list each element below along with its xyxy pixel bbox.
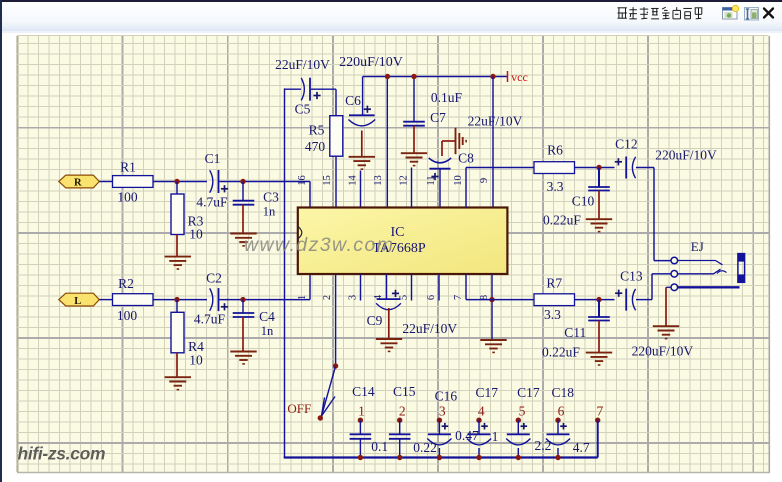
svg-text:100: 100 xyxy=(117,308,138,323)
svg-text:12: 12 xyxy=(399,175,410,186)
svg-text:1n: 1n xyxy=(263,205,276,219)
svg-text:470: 470 xyxy=(305,139,326,154)
svg-text:3: 3 xyxy=(348,295,359,300)
svg-text:R7: R7 xyxy=(546,276,562,291)
svg-text:C18: C18 xyxy=(551,385,574,400)
svg-text:C4: C4 xyxy=(259,309,275,324)
svg-text:3.3: 3.3 xyxy=(547,179,564,194)
svg-text:L: L xyxy=(74,296,81,307)
svg-text:9: 9 xyxy=(479,178,490,183)
svg-text:4.7uF: 4.7uF xyxy=(194,312,226,327)
svg-text:0.1uF: 0.1uF xyxy=(431,90,463,105)
svg-text:22uF/10V: 22uF/10V xyxy=(468,114,523,129)
svg-text:C8: C8 xyxy=(458,151,474,166)
svg-text:C3: C3 xyxy=(263,190,279,205)
svg-text:C15: C15 xyxy=(393,384,416,399)
svg-text:1: 1 xyxy=(358,404,365,419)
svg-text:hifi-zs.com: hifi-zs.com xyxy=(18,444,106,464)
svg-text:C12: C12 xyxy=(615,137,638,152)
svg-text:4.7uF: 4.7uF xyxy=(196,195,228,210)
svg-text:0.22: 0.22 xyxy=(413,440,437,455)
svg-text:C2: C2 xyxy=(206,271,222,286)
svg-text:100: 100 xyxy=(117,190,138,205)
svg-text:OFF: OFF xyxy=(287,401,311,416)
svg-text:C6: C6 xyxy=(345,93,361,108)
svg-text:C16: C16 xyxy=(435,389,458,404)
svg-text:0.1: 0.1 xyxy=(371,439,388,454)
svg-text:EJ: EJ xyxy=(691,239,704,254)
svg-text:1n: 1n xyxy=(261,324,274,338)
svg-text:6: 6 xyxy=(558,404,565,419)
svg-text:2: 2 xyxy=(322,295,333,300)
svg-text:C5: C5 xyxy=(295,102,311,117)
svg-text:7: 7 xyxy=(453,295,464,300)
svg-text:4.7: 4.7 xyxy=(573,440,590,455)
svg-text:22uF/10V: 22uF/10V xyxy=(402,321,457,336)
svg-text:vcc: vcc xyxy=(511,70,528,84)
svg-text:2.2: 2.2 xyxy=(534,438,551,453)
svg-text:10: 10 xyxy=(189,227,203,242)
svg-text:1: 1 xyxy=(297,295,308,300)
svg-text:R: R xyxy=(74,178,82,189)
svg-text:13: 13 xyxy=(373,175,384,186)
svg-text:0.22uF: 0.22uF xyxy=(542,345,580,360)
svg-text:R2: R2 xyxy=(118,276,134,291)
svg-text:3: 3 xyxy=(439,404,446,419)
svg-text:C17: C17 xyxy=(475,385,498,400)
svg-text:C17: C17 xyxy=(517,385,540,400)
svg-text:4: 4 xyxy=(478,404,485,419)
svg-text:C9: C9 xyxy=(367,313,383,328)
svg-text:14: 14 xyxy=(348,175,359,186)
svg-text:5: 5 xyxy=(399,295,410,300)
svg-text:220uF/10V: 220uF/10V xyxy=(632,344,694,359)
svg-text:15: 15 xyxy=(322,175,333,186)
svg-text:2: 2 xyxy=(399,404,406,419)
svg-text:R1: R1 xyxy=(120,160,136,175)
svg-text:R6: R6 xyxy=(547,143,563,158)
svg-text:5: 5 xyxy=(519,404,526,419)
svg-text:R5: R5 xyxy=(309,123,325,138)
svg-text:C1: C1 xyxy=(205,151,221,166)
svg-text:C11: C11 xyxy=(564,325,586,340)
svg-text:11: 11 xyxy=(426,175,437,185)
svg-text:1: 1 xyxy=(492,429,499,444)
svg-text:3.3: 3.3 xyxy=(544,307,561,322)
svg-text:220uF/10V: 220uF/10V xyxy=(339,55,403,70)
svg-text:C7: C7 xyxy=(430,110,446,125)
svg-text:C10: C10 xyxy=(572,194,595,209)
svg-text:10: 10 xyxy=(453,175,464,186)
svg-text:7: 7 xyxy=(597,404,604,419)
svg-text:16: 16 xyxy=(297,175,308,186)
svg-text:0.47: 0.47 xyxy=(455,428,479,443)
svg-text:220uF/10V: 220uF/10V xyxy=(655,148,717,163)
svg-text:6: 6 xyxy=(426,295,437,300)
svg-text:C14: C14 xyxy=(352,384,375,399)
svg-text:0.22uF: 0.22uF xyxy=(543,213,581,228)
svg-text:10: 10 xyxy=(189,353,203,368)
svg-text:22uF/10V: 22uF/10V xyxy=(275,57,330,72)
svg-text:C13: C13 xyxy=(620,269,643,284)
